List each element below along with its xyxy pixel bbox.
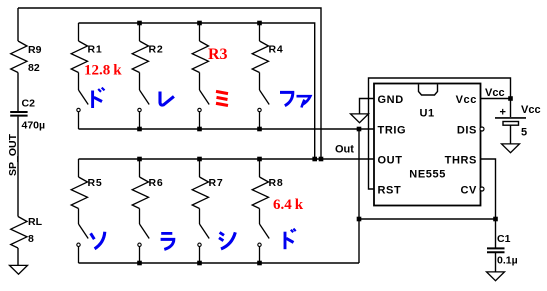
switch SW7 blade [200,224,210,239]
wire C2 to RL [17,117,19,217]
pin CV open circle [480,187,484,191]
wire THRS-C1 link [359,218,496,220]
wire THRS stub [481,159,496,219]
svg-text:U1: U1 [420,108,435,120]
node OUT-R7 [197,157,202,162]
node rail2-SW8 [257,261,262,266]
wire battery to ground [510,125,512,143]
wire R3 to switch [199,73,201,91]
wire Vcc to battery [510,99,512,118]
U1 notch [419,84,438,95]
wire RST to Vcc route [369,78,511,189]
svg-text:Vcc: Vcc [456,94,477,106]
svg-text:C2: C2 [22,98,36,110]
ground C1 [487,272,505,281]
capacitor C2 [10,112,27,116]
ground SP branch [10,265,28,274]
wire R6 stub [139,159,141,177]
svg-text:82: 82 [28,62,40,74]
resistor R1 [71,41,87,73]
switch SW3 blade [200,90,210,105]
node TRIG-SW3 [197,127,202,132]
switch SW6 blade [140,224,150,239]
switch SW2 blade [140,90,150,105]
node rail1-R4 [257,21,262,26]
katakana key labels (drawn as strokes) [91,88,311,250]
switch SW2 contact circle [138,108,141,111]
node OUT-railB [319,157,324,162]
svg-text:R8: R8 [269,177,284,189]
node riser-link [357,217,362,222]
switch SW7 contact circle [198,243,201,246]
kana SHI [219,232,235,249]
resistor RL [11,217,27,249]
wire row1 top rail [79,23,315,159]
wire R8 to switch [259,209,261,225]
wire R7 stub [199,159,201,177]
wire SW2 to rail [139,112,141,129]
svg-text:C1: C1 [497,233,511,245]
svg-text:Out: Out [335,144,354,156]
kana RE [160,92,174,106]
resistor R3 [192,41,208,73]
svg-text:+: + [500,107,506,119]
wire TRIG rail [79,128,375,130]
ground battery [502,144,520,153]
resistor R2 [132,41,148,73]
kana MI (red) [216,91,228,105]
switch SW4 contact circle [258,108,261,111]
node TRIG-SW2 [137,127,142,132]
wire R5 stub [78,159,80,177]
switch SW3 contact circle [198,108,201,111]
wire R4 to switch [259,73,261,91]
wire SW3 to rail [199,112,201,129]
wire R2 stub [139,23,141,41]
svg-text:R5: R5 [88,177,103,189]
wire R7 to switch [199,209,201,225]
capacitor C1 [487,248,505,252]
kana FU (of FA) [280,92,293,105]
row 1 branches: R1-R4 with switches [71,23,269,129]
wire R2 to switch [139,73,141,91]
node TRIG-SW4 [257,127,262,132]
svg-text:5: 5 [521,127,527,139]
wire R4 stub [259,23,261,41]
resistor R9 [11,41,27,73]
wire SW7 to rail [199,247,201,264]
row 2 branches: R5-R8 with switches [71,159,269,263]
wire R3 stub [199,23,201,41]
wire R1 stub [78,23,80,41]
svg-text:GND: GND [378,94,404,106]
kana small A (of FA) [297,96,311,107]
node rail1-R2 [137,21,142,26]
battery V1 plus plate [495,117,526,119]
wire SW6 to rail [139,247,141,264]
wire SW5 to rail [78,247,80,264]
wire SW8 to rail [259,247,261,264]
wire riser TRIG to row2 rail [358,129,360,263]
wire OUT rail [79,158,375,160]
svg-text:RST: RST [378,185,402,197]
kana DO row2 [285,229,296,250]
svg-text:12.8 k: 12.8 k [84,63,122,79]
switch SW1 contact circle [77,108,80,111]
wire R9 branch top [17,8,19,41]
resistor R5 [71,177,87,209]
kana DO row1 [93,88,105,108]
wire R9 to C2 [17,73,19,112]
node Vcc-battery [508,96,513,101]
switch SW5 contact circle [77,243,80,246]
wire Vcc pin stub [481,98,511,100]
kana SO [91,232,105,249]
battery V1 minus plate [503,122,519,126]
svg-text:RL: RL [28,216,43,228]
switch SW5 blade [79,224,89,239]
node TRIG-riser [357,127,362,132]
node rail2-SW6 [137,261,142,266]
ground GND pin [351,114,369,123]
wire outer top rail [18,8,321,159]
svg-text:8: 8 [28,233,34,245]
wire R1 to switch [78,73,80,91]
wire SW4 to rail [259,112,261,129]
wire GND pin drop [360,99,375,114]
svg-text:R2: R2 [149,44,164,56]
svg-text:DIS: DIS [457,125,477,137]
svg-text:R1: R1 [88,44,103,56]
switch SW6 contact circle [138,243,141,246]
op-amp U1 NE555 body [374,84,481,206]
svg-text:R7: R7 [209,177,224,189]
wire R8 stub [259,159,261,177]
wire C1 to ground [495,253,497,272]
wire SW1 to rail [78,112,80,129]
svg-text:R4: R4 [269,44,284,56]
wire R5 to switch [78,209,80,225]
svg-text:470µ: 470µ [22,120,46,132]
svg-text:6.4 k: 6.4 k [273,197,304,213]
svg-text:R9: R9 [28,44,42,56]
svg-text:THRS: THRS [445,155,477,167]
node OUT-R8 [257,157,262,162]
switch SW8 contact circle [258,243,261,246]
wire R6 to switch [139,209,141,225]
switch SW4 blade [260,90,270,105]
svg-text:NE555: NE555 [409,169,446,181]
resistor R7 [192,177,208,209]
svg-text:R3: R3 [208,46,228,63]
switch SW1 blade [79,90,89,105]
resistor R4 [252,41,268,73]
resistor R6 [132,177,148,209]
svg-text:CV: CV [461,185,478,197]
wire row2 bottom rail [79,262,360,264]
svg-text:OUT: OUT [378,155,403,167]
resistor R8 [252,177,268,209]
node OUT-railA [312,157,317,162]
node OUT-R6 [137,157,142,162]
svg-text:0.1µ: 0.1µ [497,255,518,267]
wire link to C1 [495,219,497,248]
node rail2-SW7 [197,261,202,266]
switch SW8 blade [260,224,270,239]
svg-text:Vcc: Vcc [485,87,505,99]
svg-text:SP_OUT: SP_OUT [7,133,19,176]
pin DIS open circle [480,127,484,131]
node rail1-R3 [197,21,202,26]
svg-text:R6: R6 [149,177,164,189]
svg-text:Vcc: Vcc [521,104,541,116]
svg-text:TRIG: TRIG [378,125,407,137]
kana RA [161,233,174,249]
node link-C1 [493,217,498,222]
wire RL to ground [17,248,19,265]
